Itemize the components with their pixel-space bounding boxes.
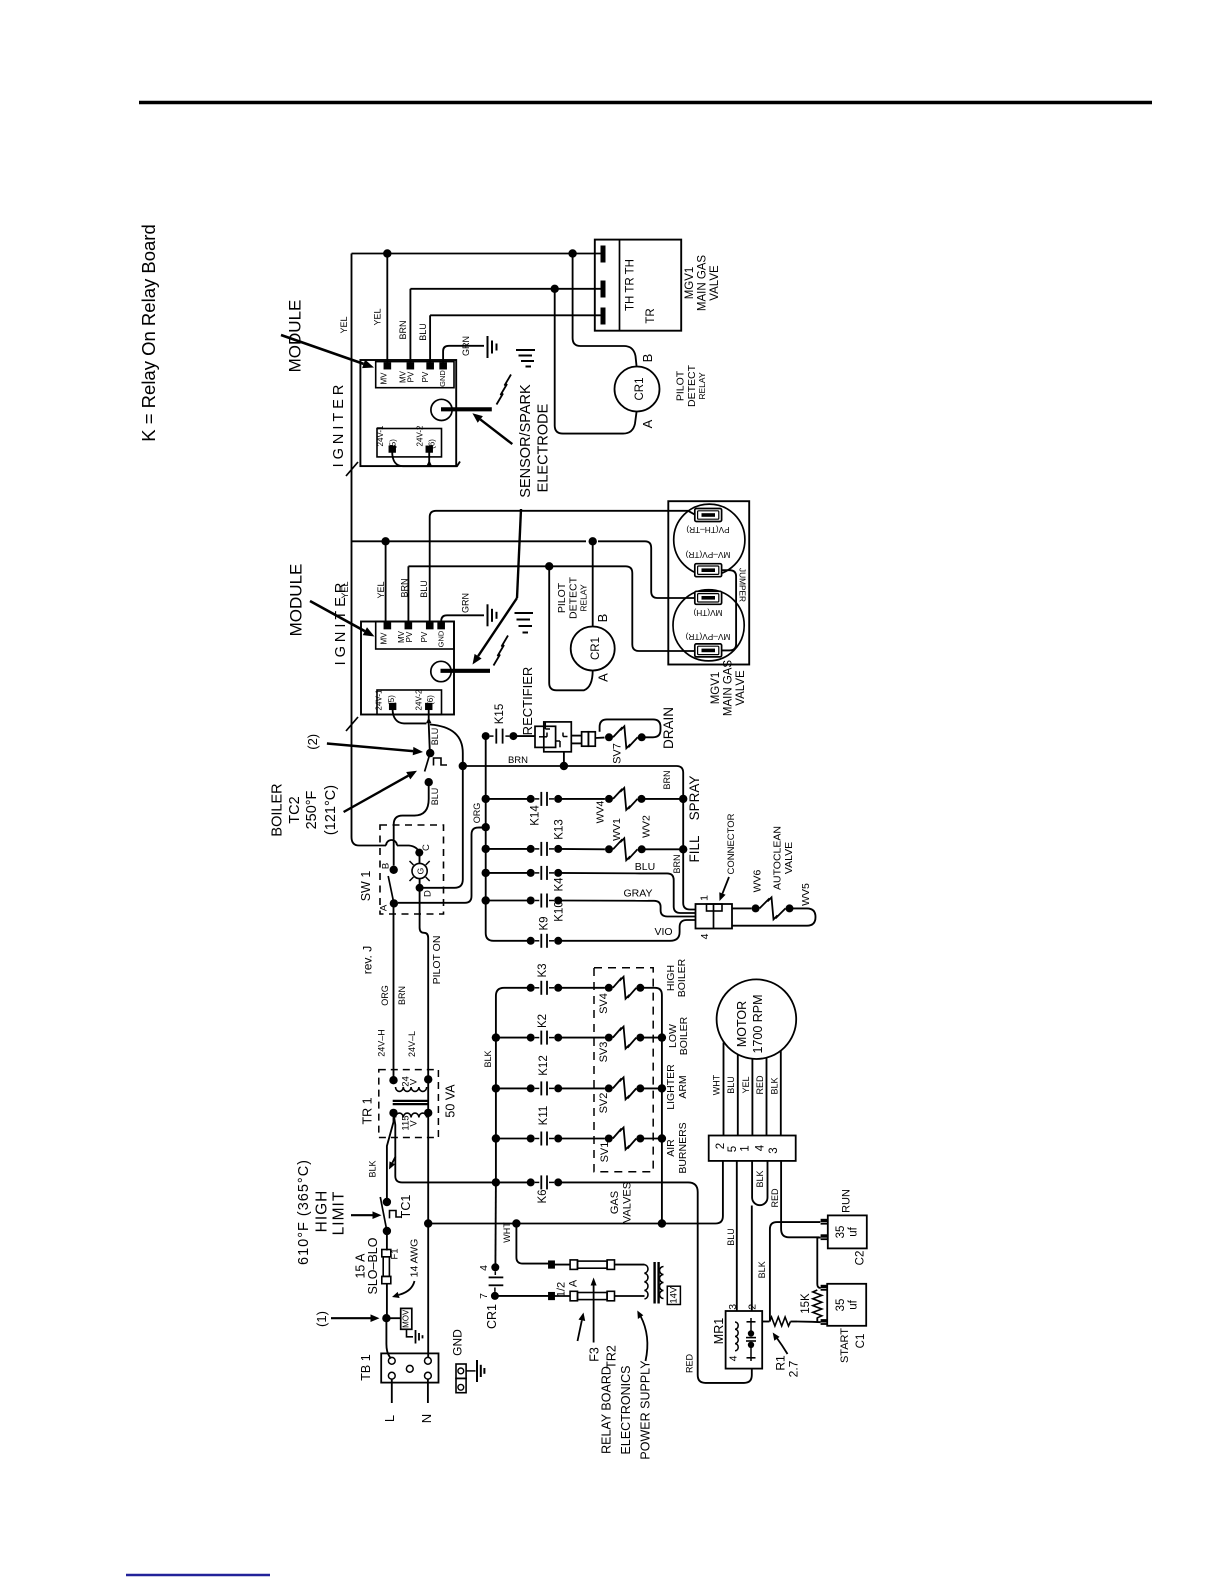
label PILOT ON <box>431 936 443 985</box>
label K10 <box>553 901 565 921</box>
svg-text:TH TR TH: TH TR TH <box>625 259 637 311</box>
label 4 CR1 <box>478 1265 490 1271</box>
svg-text:PILOT ON: PILOT ON <box>431 936 443 985</box>
label WHT motor <box>711 1074 721 1095</box>
wire PV M2 BLU top <box>430 511 695 629</box>
node right bus K11 <box>658 1134 666 1142</box>
arrow connector label <box>719 877 729 901</box>
label YEL motor <box>741 1076 751 1093</box>
svg-text:WV6: WV6 <box>751 869 763 892</box>
svg-text:BLU: BLU <box>430 728 440 746</box>
svg-text:K14: K14 <box>530 805 542 826</box>
wire 24V(5) to 24V(6) jumper U1 <box>392 452 460 466</box>
label GAS VALVES <box>609 1182 634 1223</box>
svg-text:D: D <box>423 890 434 897</box>
svg-text:VALVE: VALVE <box>783 842 795 874</box>
svg-text:IGNITER: IGNITER <box>331 381 347 468</box>
svg-text:BLK: BLK <box>755 1170 765 1187</box>
svg-text:SV3: SV3 <box>598 1042 610 1063</box>
svg-text:BRN: BRN <box>508 755 528 766</box>
wire K14 row <box>486 798 605 800</box>
svg-text:1/2: 1/2 <box>555 1282 567 1297</box>
svg-text:24V-1: 24V-1 <box>375 689 384 710</box>
svg-text:PILOT: PILOT <box>674 370 686 401</box>
resistor R1 2.7 <box>762 1317 797 1326</box>
solenoid valve SV2 <box>605 1077 645 1099</box>
label K12 <box>538 1055 550 1075</box>
wire motor BLU <box>737 1055 739 1136</box>
label ORG riser <box>472 803 482 824</box>
svg-text:AIR: AIR <box>665 1139 677 1157</box>
svg-text:SV4: SV4 <box>598 993 610 1014</box>
svg-text:3: 3 <box>727 1304 739 1310</box>
svg-text:YEL: YEL <box>372 308 382 325</box>
gas valve MGV1-2 box <box>668 501 749 664</box>
relay contact K4 <box>527 866 563 880</box>
label YEL on MV wire M1 <box>372 308 382 325</box>
svg-text:A: A <box>640 419 655 428</box>
igniter U1 terminal 24V-2 (6) <box>416 425 437 452</box>
svg-text:RELAY BOARD: RELAY BOARD <box>599 1366 613 1454</box>
ground symbol M1 <box>488 336 497 358</box>
relay coil CR1-2 <box>571 627 615 671</box>
relay contact K13 <box>527 842 563 856</box>
water valve WV1 <box>605 838 646 860</box>
node TR1 pri left <box>389 1109 397 1117</box>
label BLK in U <box>755 1170 765 1187</box>
sensor leader arrow U1 <box>472 413 512 444</box>
label N <box>419 1414 434 1423</box>
wire SV7 loop <box>595 719 660 748</box>
label SV3 <box>598 1042 610 1063</box>
arrow F3 to fuse b <box>578 1313 586 1342</box>
svg-text:BLU: BLU <box>726 1228 736 1246</box>
label pin 3b <box>768 1147 780 1153</box>
label SPRAY <box>687 776 702 821</box>
relay MR1 box <box>726 1311 763 1369</box>
wire rectifier to BRN bus <box>563 752 565 766</box>
label GRAY row <box>624 887 653 899</box>
module M1 terminal MV <box>380 363 391 384</box>
bridge rectifier <box>535 722 571 752</box>
svg-text:K10: K10 <box>553 901 565 921</box>
wire K4 row <box>486 872 640 875</box>
label SV4 <box>598 993 610 1014</box>
svg-text:JUMPER: JUMPER <box>738 568 748 602</box>
thermostat TC2 <box>425 749 448 787</box>
label K13 <box>553 819 565 839</box>
svg-text:POWER SUPPLY: POWER SUPPLY <box>638 1360 652 1460</box>
svg-text:BLU: BLU <box>726 1076 736 1094</box>
page footer rule (blue) <box>126 1574 270 1576</box>
svg-text:14 AWG: 14 AWG <box>409 1239 421 1278</box>
relay contact K15 <box>482 729 518 744</box>
label GRN M2 <box>460 593 470 613</box>
module M1 terminal PV <box>421 363 433 382</box>
label DRAIN <box>661 707 676 749</box>
wire K2 row <box>496 1037 605 1039</box>
arrow boiler label to TC2 contact <box>344 771 417 812</box>
wire BLK bus to CR1 contact <box>494 1182 497 1267</box>
label START <box>839 1328 851 1363</box>
relay contact K10 <box>527 894 563 908</box>
gas valve MGV1-1 box <box>595 240 681 331</box>
module M1 label <box>285 300 304 373</box>
wire WHT to F3a <box>516 1224 548 1264</box>
wire bus B to K9 row <box>486 933 531 941</box>
label B CR1-2 <box>595 614 610 623</box>
label ORG on 24VH wire <box>380 985 390 1006</box>
label AIR BURNERS <box>665 1122 689 1173</box>
label TR <box>645 308 657 323</box>
wire node to TB1 L <box>386 1318 391 1358</box>
module M2 terminal GND <box>436 623 445 647</box>
wire ORG elbow <box>479 826 486 828</box>
wire K6 row <box>496 1181 688 1183</box>
svg-text:610°F (365°C): 610°F (365°C) <box>296 1159 312 1265</box>
svg-text:BLK: BLK <box>770 1077 780 1094</box>
label 15 A SLO-BLO <box>353 1237 380 1294</box>
wire 24V merge to bus A <box>430 725 463 767</box>
arrow LIMIT to TC1 <box>351 1211 382 1219</box>
TR1 primary coil <box>396 1113 427 1117</box>
label 15K <box>800 1293 812 1314</box>
wire SV4 to right bus <box>640 988 662 1224</box>
svg-text:BLK: BLK <box>757 1261 767 1278</box>
svg-text:TR 1: TR 1 <box>360 1097 374 1124</box>
relay coil CR1-1 <box>615 367 660 412</box>
wire bus B K15 <box>485 736 487 933</box>
arrow 14AWG to wire <box>392 1281 415 1298</box>
MGV1-1 terminal bar TH2 <box>601 308 606 325</box>
label D SW1 <box>423 890 434 897</box>
svg-text:K15: K15 <box>494 704 506 724</box>
page header rule <box>139 101 1152 104</box>
svg-text:GRN: GRN <box>461 336 471 356</box>
node WHT right bus <box>658 1219 666 1227</box>
label K15 <box>494 704 506 724</box>
label 1/2 A <box>555 1279 579 1297</box>
label BOILER TC2 250F 121C <box>269 783 338 836</box>
svg-text:N: N <box>419 1414 434 1423</box>
svg-text:YEL: YEL <box>376 581 386 598</box>
wire BRN to connector pin1 <box>683 849 695 909</box>
wire BLU to connector pin2 <box>640 873 696 913</box>
label SENSOR/SPARK ELECTRODE <box>518 384 552 498</box>
igniter U2 terminal 24V-1 (5) <box>375 689 397 710</box>
svg-text:A: A <box>379 904 390 911</box>
svg-text:VIO: VIO <box>654 926 672 938</box>
label A SW1 <box>379 904 390 911</box>
svg-text:PILOT: PILOT <box>556 582 568 613</box>
label A CR1-1 <box>640 419 655 428</box>
label pin 3 MR1 <box>727 1304 739 1310</box>
label BLK TC1 <box>367 1160 377 1177</box>
node YEL-TH <box>568 249 576 257</box>
svg-text:WV4: WV4 <box>594 800 606 823</box>
svg-text:TC1: TC1 <box>399 1195 413 1219</box>
label SV7 <box>611 743 623 764</box>
label GND <box>451 1329 465 1356</box>
node BRN M1 <box>551 285 559 293</box>
svg-text:BLU: BLU <box>430 788 440 806</box>
svg-text:BOILER: BOILER <box>678 1016 690 1055</box>
relay contact K11 <box>527 1132 563 1146</box>
label L <box>382 1415 397 1422</box>
arrow BLK to wire <box>389 1157 396 1170</box>
svg-text:LIGHTER: LIGHTER <box>665 1064 677 1110</box>
label MGV1 MAIN GAS VALVE no.2 <box>710 660 747 717</box>
igniter U1 outer box <box>360 360 456 466</box>
wire 24V(5) U2 lead <box>393 709 427 723</box>
svg-text:MGV1: MGV1 <box>684 267 696 300</box>
svg-text:ARM: ARM <box>677 1075 689 1098</box>
wire rectifier output top <box>571 735 581 737</box>
label pin 5 <box>727 1146 739 1152</box>
svg-text:RELAY: RELAY <box>578 584 588 612</box>
wire motor YEL <box>751 1059 753 1136</box>
label RECTIFIER <box>520 667 535 736</box>
svg-text:3: 3 <box>768 1147 780 1153</box>
label WV2 <box>640 815 652 838</box>
label RELAY BOARD ELECTRONICS POWER SUPPLY <box>599 1360 652 1460</box>
module M1 terminal GND <box>438 363 447 387</box>
svg-text:24V–L: 24V–L <box>407 1031 417 1057</box>
module M1 leader arrow <box>281 335 374 368</box>
svg-text:CR1: CR1 <box>590 637 602 660</box>
wire SV1 to right bus <box>640 1138 662 1140</box>
wire A to ORG riser <box>398 828 486 903</box>
wire YEL-RED U loop <box>752 1161 767 1205</box>
label BRN on MV-PV wire M2 <box>399 578 409 597</box>
label BLU on PV wire M2 <box>419 580 429 598</box>
label MGV1 MAIN GAS VALVE no.1 <box>684 255 721 312</box>
svg-text:4: 4 <box>727 1355 739 1361</box>
svg-text:A: A <box>595 673 610 682</box>
MGV1-2 pilot circle upper <box>674 504 745 575</box>
svg-text:BRN: BRN <box>397 986 407 1005</box>
ground block earth symbol <box>466 1360 484 1382</box>
node BRN start <box>459 762 467 770</box>
label 24V-H <box>376 1029 386 1057</box>
label R1 2.7 <box>774 1355 801 1377</box>
wire K6 to MR1 pin4 RED <box>688 1182 752 1383</box>
node right bus K2 <box>658 1033 666 1041</box>
relay contact K9 <box>527 934 563 948</box>
label TH TR TH <box>625 259 637 311</box>
label K9 <box>539 916 551 930</box>
relay contact K14 <box>527 792 563 806</box>
node TR1 pri right <box>424 1109 432 1117</box>
svg-text:24V–H: 24V–H <box>376 1029 386 1057</box>
label A CR1-2 <box>595 673 610 682</box>
node BLK K2 <box>492 1033 500 1041</box>
transformer TR2 leads <box>615 1265 645 1296</box>
wire U to MR1 pin2 <box>751 1206 753 1312</box>
node BRN fill <box>679 845 687 853</box>
svg-text:PV: PV <box>407 371 416 382</box>
svg-text:ELECTRONICS: ELECTRONICS <box>619 1366 633 1455</box>
label BLK motor <box>770 1077 780 1094</box>
label LIGHTER ARM <box>665 1064 689 1110</box>
svg-text:WHT: WHT <box>711 1074 721 1095</box>
igniter U2 boundary tick <box>346 717 358 731</box>
label BRN mid right <box>672 854 682 873</box>
pilot lamp G <box>410 849 430 892</box>
arrow (1) to node <box>331 1314 380 1322</box>
label 14V box <box>667 1286 680 1304</box>
svg-text:7: 7 <box>478 1293 490 1299</box>
node SW1 B <box>390 866 398 874</box>
svg-text:5: 5 <box>727 1146 739 1152</box>
switch SW1 blade <box>388 876 394 903</box>
water valve WV4 <box>605 788 646 810</box>
node bus B K13 <box>482 845 490 853</box>
wire F1 to node1 <box>386 1284 388 1319</box>
node BLK K6 <box>492 1178 500 1186</box>
label TB 1 <box>359 1354 373 1380</box>
label (2) <box>305 734 320 750</box>
svg-text:K3: K3 <box>537 963 549 977</box>
wire VIO to connector pin4 <box>670 920 696 941</box>
wire motor RED <box>766 1058 768 1136</box>
label WV4 <box>594 800 606 823</box>
MGV1-2 pilot circle lower <box>673 590 744 661</box>
igniter U1 label IGNITER <box>331 381 347 468</box>
label pin 2 MR1 <box>746 1304 758 1310</box>
label BRN on 24VL wire <box>397 986 407 1005</box>
MGV1-2 coil terminal MV(TH) <box>693 591 722 618</box>
svg-text:MV: MV <box>380 372 389 385</box>
svg-text:HIGH: HIGH <box>314 1190 331 1233</box>
label pin 1 <box>698 895 710 901</box>
arrow power supply to TR2 <box>637 1311 647 1362</box>
wire A to 24VH down <box>393 907 395 1078</box>
svg-text:GRAY: GRAY <box>624 887 653 899</box>
wire K11 row <box>496 1138 605 1140</box>
label SW 1 <box>359 871 373 902</box>
svg-text:C: C <box>421 844 432 851</box>
wire TB1 L lead <box>391 1379 393 1403</box>
svg-text:K = Relay On Relay Board: K = Relay On Relay Board <box>138 224 159 441</box>
label AUTOCLEAN VALVE <box>771 826 795 890</box>
node YEL-MV M2 <box>381 537 389 545</box>
wire WV4 to BRN <box>642 798 684 800</box>
jumper wire MGV1-2 <box>722 570 737 650</box>
svg-text:15K: 15K <box>800 1293 812 1314</box>
svg-text:uf: uf <box>848 1299 860 1309</box>
svg-text:YEL: YEL <box>339 316 349 333</box>
label RED MR1 pin4 <box>684 1354 694 1374</box>
label B CR1-1 <box>640 354 655 363</box>
svg-text:K4: K4 <box>553 877 565 892</box>
svg-text:ORG: ORG <box>380 985 390 1006</box>
igniter U2 24V sub-box <box>377 690 442 715</box>
wire C2top to BLK down <box>770 1222 820 1321</box>
sensor electrode U1 <box>431 399 492 420</box>
connector plug SV7 <box>582 732 596 746</box>
autoclean valve WV6 <box>732 897 794 919</box>
svg-text:WV5: WV5 <box>800 883 812 906</box>
label PILOT DETECT RELAY no.2 <box>556 576 588 619</box>
svg-text:V: V <box>409 1120 420 1127</box>
node rectifier BRN <box>560 762 568 770</box>
svg-text:uf: uf <box>848 1226 860 1236</box>
label K3 <box>537 963 549 977</box>
wire CR1 to F3b <box>495 1295 549 1297</box>
svg-text:GAS: GAS <box>609 1191 621 1214</box>
wire RED to C2 top <box>781 1161 819 1237</box>
wire 24V merge to TC2 <box>429 723 430 751</box>
svg-text:SV2: SV2 <box>598 1093 610 1114</box>
wire CR1-2 coil A lead <box>549 566 593 690</box>
flame marks U2 <box>515 613 534 633</box>
svg-text:START: START <box>839 1328 851 1363</box>
svg-text:4: 4 <box>478 1265 490 1271</box>
MR1 contact internals <box>746 1318 756 1361</box>
wire K15 to rectifier <box>513 735 535 737</box>
node BLK K12 <box>492 1084 500 1092</box>
wire K9 VIO row <box>558 940 670 942</box>
igniter U1 24V sub-box <box>377 429 442 457</box>
svg-text:BRN: BRN <box>672 854 682 873</box>
label pin 1b <box>739 1145 751 1151</box>
node TR1 sec left <box>389 1076 397 1084</box>
fuse F3b <box>549 1291 615 1301</box>
svg-text:A: A <box>567 1279 579 1287</box>
solenoid valve SV1 <box>605 1128 645 1150</box>
MR1 coil <box>735 1322 738 1351</box>
gas valves dashed box <box>594 968 653 1172</box>
node BLK K11 <box>492 1134 500 1142</box>
svg-text:WV2: WV2 <box>640 815 652 838</box>
label JUMPER <box>738 568 748 602</box>
svg-text:2: 2 <box>746 1304 758 1310</box>
wire BLU to MR1 pin3 <box>736 1161 738 1311</box>
svg-text:F3: F3 <box>587 1347 601 1362</box>
label BLU lower <box>726 1228 736 1246</box>
svg-text:SW 1: SW 1 <box>359 871 373 902</box>
arrow R1 label to resistor <box>773 1333 788 1355</box>
svg-text:MV–PV(TR): MV–PV(TR) <box>685 550 730 560</box>
svg-text:LIMIT: LIMIT <box>331 1191 348 1236</box>
wire K12 row <box>496 1087 605 1089</box>
relay contact K12 <box>527 1081 563 1095</box>
wire GRAY to connector pin3 <box>648 901 696 917</box>
label YEL on MV wire M2 <box>376 581 386 598</box>
wire TC1 to F1 <box>386 1231 388 1251</box>
svg-text:F1: F1 <box>389 1248 400 1259</box>
ground symbol M2 <box>488 604 497 626</box>
svg-text:2.7: 2.7 <box>787 1360 801 1377</box>
svg-text:RED: RED <box>770 1188 780 1208</box>
label (1) <box>314 1311 329 1327</box>
MGV1-2 coil terminal PV(TH-TR) <box>686 509 730 535</box>
svg-text:MODULE: MODULE <box>286 564 305 637</box>
svg-text:BRN: BRN <box>662 770 672 789</box>
module M2 terminal MV-PV <box>397 623 414 643</box>
svg-text:YEL: YEL <box>340 581 350 598</box>
wire R1 to C1 bottom <box>797 1321 821 1324</box>
svg-text:rev. J: rev. J <box>361 946 375 974</box>
svg-text:YEL: YEL <box>741 1076 751 1093</box>
svg-text:SLO–BLO: SLO–BLO <box>366 1237 380 1294</box>
wire WHT bus <box>428 1161 723 1224</box>
svg-text:RED: RED <box>755 1075 765 1095</box>
label BLU above TC2 <box>430 728 440 746</box>
TR1 secondary coil <box>396 1087 427 1091</box>
svg-text:PV: PV <box>421 371 430 382</box>
